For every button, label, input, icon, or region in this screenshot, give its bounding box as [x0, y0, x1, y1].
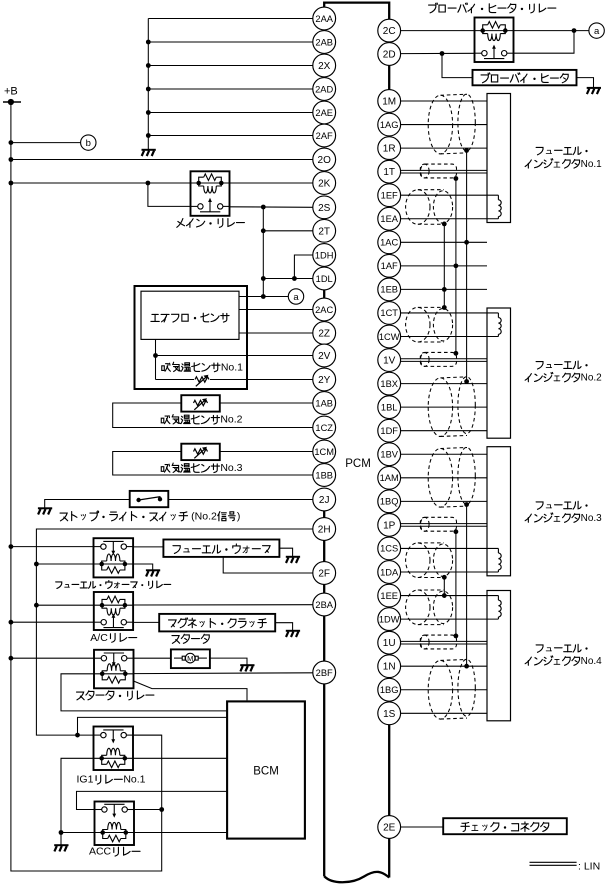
- wire to connector b: [11, 142, 81, 144]
- label PCM: [345, 458, 371, 470]
- wire junction riser x263: [261, 207, 266, 299]
- wire IG1 switch stub to BCM: [78, 717, 228, 735]
- shield for 1V LIN line: [420, 352, 456, 366]
- label ブローバイ・ヒータ: [481, 73, 568, 83]
- svg-text:1CS: 1CS: [380, 544, 398, 554]
- node pin 2AB: [313, 31, 336, 54]
- connector a (right): [589, 23, 604, 38]
- wire A/C relay switch to magnet clutch: [133, 621, 159, 623]
- ground fuel warmer: [286, 557, 300, 563]
- wire link 2H-2F: [323, 529, 325, 573]
- svg-text:No.1: No.1: [221, 361, 243, 373]
- svg-text:1AM: 1AM: [380, 473, 399, 483]
- thermistor 吸気温センサNo.1: [195, 375, 209, 387]
- wire to connector a (airflow sensor): [239, 296, 288, 298]
- svg-text:1EF: 1EF: [381, 190, 398, 200]
- wire main relay switch left leg: [148, 183, 191, 206]
- wire pin 1BQ: [401, 500, 487, 502]
- wire pin 1V LIN: [401, 359, 487, 362]
- injector No.2 connector and coil: [401, 308, 511, 438]
- wire shield drain chain D (No.3 sensor shield to 1N): [464, 502, 469, 668]
- svg-text:1N: 1N: [383, 662, 396, 673]
- node pin 2D: [378, 43, 401, 66]
- relay ACC (ACCリレー): [95, 802, 135, 846]
- wire pin 2F from fuel warmer: [223, 557, 313, 573]
- svg-text:1DW: 1DW: [379, 614, 400, 624]
- svg-text:IG1: IG1: [76, 774, 93, 786]
- svg-text:b: b: [86, 138, 91, 149]
- svg-text:2H: 2H: [318, 525, 331, 536]
- thermistor box 吸気温センサNo.2: [181, 395, 220, 411]
- svg-text:2T: 2T: [318, 226, 330, 237]
- wire pin 2D to blow-by relay switch: [401, 51, 475, 56]
- node pin 2T: [313, 219, 336, 242]
- node pin 1EB: [378, 278, 401, 301]
- node pin 1T: [378, 160, 401, 183]
- label フューエル・インジェクタNo.4: [525, 644, 602, 667]
- ground stop lamp switch: [38, 508, 52, 514]
- node pin 1N: [378, 655, 401, 678]
- node pin 1EF: [378, 184, 401, 207]
- wire shield drain chain F (No.3 coil shield to 1EE): [442, 575, 447, 598]
- switch stop lamp (ストップ・ライト・スイッチ): [130, 491, 169, 507]
- svg-text:2AF: 2AF: [316, 131, 333, 141]
- svg-text:(No.2: (No.2: [188, 510, 217, 522]
- wire pin 1BG: [401, 689, 487, 691]
- injector No.4 connector and coil: [401, 591, 511, 721]
- wire pin 1AB / loop to 1CZ: [113, 403, 313, 428]
- wire airflow internal riser: [153, 339, 158, 379]
- svg-text:2E: 2E: [383, 823, 396, 834]
- label チェック・コネクタ: [461, 822, 549, 832]
- svg-text:1CZ: 1CZ: [315, 423, 333, 433]
- shield for 1N/1BG/1S (injector No.4 sensor lines): [428, 659, 475, 719]
- wire starter relay switch to starter motor: [134, 657, 171, 659]
- node pin 2AD: [313, 78, 336, 101]
- svg-text:2F: 2F: [318, 569, 330, 580]
- svg-text:No.3: No.3: [220, 462, 242, 474]
- svg-text:1BV: 1BV: [380, 450, 398, 460]
- label ブローバイ・ヒータ・リレー: [429, 3, 556, 13]
- wire A/C relay switch left to +B: [11, 621, 94, 623]
- relay IG1 (IG1リレーNo.1): [94, 727, 134, 771]
- node pin 2C: [378, 19, 401, 42]
- node pin 1BL: [378, 396, 401, 419]
- wire IG1 coil right to BCM: [133, 757, 227, 759]
- relay starter (スタータ・リレー): [94, 650, 134, 689]
- node pin 1R: [378, 137, 401, 160]
- svg-text:No.2: No.2: [220, 414, 242, 426]
- wire link 2BA-2BF: [323, 605, 325, 673]
- node pin 1BX: [378, 372, 401, 395]
- box BCM: [227, 701, 305, 838]
- wire pin 1M: [401, 100, 487, 102]
- node pin 1EE: [378, 584, 401, 607]
- wire pin 2AE: [148, 112, 312, 114]
- node pin 1CS: [378, 537, 401, 560]
- svg-text:1DH: 1DH: [315, 250, 334, 260]
- wire starter relay switch to BCM top: [134, 681, 248, 700]
- wire magnet clutch to ground: [275, 623, 292, 631]
- node pin 1P: [378, 514, 401, 537]
- wire pin 1S: [401, 712, 487, 714]
- wire pin 2AA: [148, 18, 312, 20]
- wire pin 1DF: [401, 430, 487, 432]
- connector b: [81, 135, 96, 150]
- node pin 2X: [313, 54, 336, 77]
- svg-text:2C: 2C: [383, 26, 396, 37]
- node pin 1CW: [378, 325, 401, 348]
- node pin 1AM: [378, 466, 401, 489]
- ground magnet clutch: [286, 631, 300, 637]
- ground blow-by heater: [587, 88, 601, 94]
- wire pin 1P LIN: [401, 524, 487, 527]
- wire pin 1BX: [401, 383, 487, 385]
- label フューエル・インジェクタNo.3: [525, 501, 602, 524]
- wire pin 2Z: [239, 332, 313, 334]
- wire pin 2K main relay coil: [11, 181, 313, 186]
- node pin 1DF: [378, 419, 401, 442]
- label 吸気温センサNo.2: [161, 414, 242, 426]
- node pin 2V: [313, 344, 336, 367]
- svg-text:2BA: 2BA: [315, 600, 333, 610]
- node pin 1CM: [313, 440, 336, 463]
- svg-text:1P: 1P: [383, 520, 396, 531]
- label フューエル・ウォーマ: [173, 544, 270, 553]
- wire blow-by relay switch right leg: [514, 31, 575, 54]
- motor starter (スタータ): [171, 649, 210, 668]
- box airflow sensor unit (エアフロ・センサ outer): [135, 286, 248, 389]
- svg-text:No.3: No.3: [581, 513, 603, 524]
- wire fuel warmer relay switch to heater box: [133, 546, 163, 548]
- label エアフロ・センサ: [151, 313, 229, 322]
- wire pin 2H descending feed: [34, 529, 313, 737]
- wire PCM top bus 2AA to 2C: [324, 3, 389, 31]
- svg-text:1R: 1R: [383, 144, 396, 155]
- label フューエル・インジェクタNo.2: [525, 361, 602, 384]
- wire shield drain chain B (1T shield to 1AF to 1V shield): [454, 176, 459, 356]
- label メイン・リレー: [177, 219, 245, 228]
- node pin 1M: [378, 90, 401, 113]
- box チェック・コネクタ: [443, 818, 567, 834]
- node pin 2J: [313, 488, 336, 511]
- wire shield drain chain A (No.1 sensor shield to 1AC to No.2 shield): [464, 148, 469, 384]
- ground for top-left bus: [142, 150, 156, 156]
- svg-text:): ): [237, 510, 241, 522]
- svg-text:2Z: 2Z: [318, 329, 330, 340]
- svg-text:No.1: No.1: [581, 159, 603, 170]
- node pin 1AF: [378, 254, 401, 277]
- shield for 1T LIN line: [420, 164, 456, 178]
- wire pin 2O: [11, 159, 313, 161]
- svg-text:2AA: 2AA: [315, 14, 333, 24]
- node pin 2AA: [313, 7, 336, 30]
- wire pin 1AC: [401, 241, 487, 243]
- svg-text:1BL: 1BL: [381, 402, 398, 412]
- svg-text:ACC: ACC: [89, 846, 112, 858]
- wire pin 1AF: [401, 265, 487, 267]
- node pin 2H: [313, 518, 336, 541]
- node pin 1BV: [378, 443, 401, 466]
- wire PCM left edge below 2BF with break: [324, 673, 389, 883]
- injector No.3 connector and coil: [401, 447, 511, 576]
- wire pin 2BF from starter relay coil: [134, 672, 313, 675]
- node pin 1CZ: [313, 416, 336, 439]
- wire pin 2AB: [148, 41, 312, 43]
- label IG1リレーNo.1: [76, 774, 145, 786]
- label 吸気温センサNo.1: [162, 361, 243, 373]
- node pin 1EA: [378, 207, 401, 230]
- svg-text:1CW: 1CW: [379, 332, 400, 342]
- svg-text:1DL: 1DL: [316, 274, 333, 284]
- wire pin 2BA from A/C relay coil: [36, 604, 312, 607]
- node pin 2AF: [313, 124, 336, 147]
- node pin 2BF: [313, 661, 336, 684]
- wire IG1 switch right to bottom loop: [133, 734, 162, 736]
- svg-text:1DF: 1DF: [380, 426, 398, 436]
- svg-text:1AB: 1AB: [315, 398, 333, 408]
- relay A/C (A/Cリレー): [94, 592, 133, 630]
- node pin 1DW: [378, 608, 401, 631]
- svg-text:1AC: 1AC: [380, 238, 398, 248]
- svg-text:2K: 2K: [318, 179, 331, 190]
- wire pin 2C blow-by relay coil: [401, 28, 589, 33]
- node pin 2Y: [313, 368, 336, 391]
- node pin 1BG: [378, 678, 401, 701]
- svg-text:1EE: 1EE: [380, 591, 398, 601]
- wire link 2J-2H: [323, 500, 325, 530]
- svg-text:2O: 2O: [318, 155, 332, 166]
- svg-text:: LIN: : LIN: [578, 861, 600, 873]
- wire blow-by heater feed: [442, 54, 473, 78]
- label ストップ・ライト・スイッチ (No.2信号): [60, 510, 240, 522]
- wire shield drain chain C (No.1 coil shield to 1EB to No.2 coil shield): [442, 222, 447, 310]
- node pin 1DH: [313, 244, 336, 267]
- wire +B feed line: [9, 102, 165, 871]
- svg-text:1S: 1S: [383, 709, 396, 720]
- node pin 1V: [378, 349, 401, 372]
- ground fuel warmer relay coil: [146, 570, 160, 576]
- wire link 2D-1M: [388, 54, 390, 101]
- shield for 1EE/1DW (injector No.4 coil lines): [406, 590, 453, 625]
- wire pin 2J stop lamp switch: [45, 500, 313, 509]
- node pin 2O: [313, 148, 336, 171]
- svg-text:1AF: 1AF: [381, 261, 398, 271]
- svg-text:2Y: 2Y: [318, 375, 331, 386]
- node pin 1AB: [313, 392, 336, 415]
- node pin 2E: [378, 816, 401, 839]
- connector a (left): [288, 289, 303, 304]
- svg-text:2D: 2D: [383, 50, 396, 61]
- wire pin 2AD: [148, 88, 312, 90]
- svg-text:1AG: 1AG: [380, 120, 399, 130]
- svg-text:2J: 2J: [319, 495, 330, 506]
- wire fuel warmer relay coil right to ground: [133, 564, 153, 570]
- wire pin 1CM / loop to 1BB: [113, 452, 313, 476]
- shield for 1EF/1EA (injector No.1 coil lines): [406, 190, 453, 225]
- wire pin 1AM: [401, 477, 487, 479]
- wire fuel warmer to ground: [279, 548, 292, 557]
- wire pin 1AG: [401, 124, 487, 126]
- wire pin 2X: [148, 65, 312, 67]
- node pin 2F: [313, 562, 336, 585]
- wire fuel warmer relay switch left to +B: [11, 546, 94, 548]
- svg-text:1CT: 1CT: [380, 308, 398, 318]
- label A/Cリレー: [90, 632, 136, 644]
- svg-text:1V: 1V: [383, 356, 396, 367]
- wire shield drain chain E (1P shield to 1U shield): [454, 529, 459, 638]
- label ACCリレー: [89, 846, 140, 858]
- wire IG1 coil left to ground riser: [59, 758, 94, 845]
- wire pin 1DL: [263, 278, 313, 280]
- svg-text:No.1: No.1: [123, 774, 145, 786]
- wire pin 1BL: [401, 406, 487, 408]
- svg-text:1DA: 1DA: [380, 567, 399, 577]
- node pin 1CT: [378, 302, 401, 325]
- svg-text:1CM: 1CM: [314, 447, 334, 457]
- wire pin 2V: [156, 355, 313, 357]
- thermistor box 吸気温センサNo.3: [181, 444, 220, 460]
- svg-text:1EB: 1EB: [380, 285, 398, 295]
- node pin 1AG: [378, 113, 401, 136]
- svg-text:1T: 1T: [383, 167, 395, 178]
- wire pin 2S from main relay switch: [230, 205, 313, 210]
- node pin 1BQ: [378, 490, 401, 513]
- box エアフロ・センサ inner: [141, 291, 239, 339]
- wire ACC switch right to +B loop: [134, 809, 162, 811]
- wire pin 2E to check connector: [401, 826, 444, 828]
- node pin 2AE: [313, 101, 336, 124]
- label マグネット・クラッチ: [169, 618, 267, 628]
- wire ACC switch left to BCM: [77, 791, 228, 809]
- svg-text:2X: 2X: [318, 61, 331, 72]
- wire pin 1U LIN: [401, 641, 487, 644]
- svg-text:1U: 1U: [383, 638, 396, 649]
- svg-text:a: a: [594, 26, 600, 37]
- node pin 2AC: [313, 298, 336, 321]
- node pin 2K: [313, 172, 336, 195]
- wire link 1S-2E and PCM right edge with break: [388, 713, 390, 877]
- wire pin 1T LIN: [401, 170, 487, 173]
- shield for 1U LIN line: [420, 635, 456, 649]
- node pin 1DA: [378, 561, 401, 584]
- power symbol +B: [3, 85, 21, 105]
- shield for 1CS/1DA (injector No.3 coil lines): [406, 543, 453, 578]
- svg-text:1BB: 1BB: [315, 470, 333, 480]
- wire fuel warmer relay coil left: [36, 563, 93, 565]
- svg-text:a: a: [293, 292, 299, 303]
- wire blow-by heater to ground: [577, 78, 594, 88]
- svg-text:2AC: 2AC: [315, 305, 333, 315]
- svg-text:No.2: No.2: [581, 373, 603, 384]
- label 吸気温センサNo.3: [161, 462, 242, 474]
- wire pin 2Y with thermistor: [156, 379, 313, 381]
- node pin 1DL: [313, 267, 336, 290]
- label フューエル・ウォーマ・リレー: [56, 581, 171, 589]
- svg-text:M: M: [187, 654, 193, 663]
- ground starter motor: [240, 665, 254, 671]
- wire ACC coil right to BCM: [134, 832, 227, 834]
- wire starter relay coil left to BCM: [61, 674, 227, 711]
- svg-text:PCM: PCM: [345, 458, 371, 470]
- shield for 1CT/1CW (injector No.2 coil lines): [406, 307, 453, 342]
- box フューエル・ウォーマ: [163, 540, 279, 557]
- svg-text:2AD: 2AD: [315, 84, 333, 94]
- shield for 1BV/1AM/1BQ (injector No.3 sensor lines): [428, 447, 475, 507]
- wire pin 1DH: [292, 255, 313, 281]
- svg-text:2S: 2S: [318, 203, 331, 214]
- wire pin 1N: [401, 665, 487, 667]
- shield for 1BX/1BL/1DF (injector No.2 sensor lines): [428, 377, 475, 437]
- node pin 1U: [378, 631, 401, 654]
- node pin 2BA: [313, 593, 336, 616]
- relay fuel warmer (フューエル・ウォーマ・リレー): [94, 538, 134, 577]
- svg-text:1BQ: 1BQ: [380, 497, 399, 507]
- relay main (メイン・リレー): [191, 171, 230, 216]
- wire pin 1R: [401, 147, 487, 149]
- box マグネット・クラッチ: [159, 614, 275, 632]
- svg-text:2AE: 2AE: [315, 108, 333, 118]
- ground IG1/ACC coils: [54, 845, 68, 851]
- svg-text:2BF: 2BF: [316, 668, 333, 678]
- shield for 1P LIN line: [420, 517, 456, 531]
- node pin 2Z: [313, 322, 336, 345]
- wire pin 1EB: [401, 288, 487, 290]
- svg-text:A/C: A/C: [90, 632, 108, 644]
- node pin 1S: [378, 702, 401, 725]
- svg-text:BCM: BCM: [253, 766, 279, 778]
- node pin 1AC: [378, 231, 401, 254]
- svg-text:1BG: 1BG: [380, 685, 399, 695]
- shield for 1M/1AG/1R (injector No.1 sensor lines): [428, 94, 475, 154]
- node pin 1BB: [313, 464, 336, 487]
- svg-text:No.4: No.4: [581, 656, 603, 667]
- injector No.1 connector and coil: [401, 94, 511, 223]
- box ブローバイ・ヒータ: [473, 70, 577, 85]
- svg-text:1BX: 1BX: [380, 379, 398, 389]
- wire pin 2T: [263, 230, 313, 232]
- wire link 1DL-2AC: [323, 279, 325, 310]
- node pin 2S: [313, 196, 336, 219]
- label フューエル・インジェクタNo.1: [525, 147, 602, 170]
- legend LIN double line: [530, 861, 601, 873]
- label スタータ・リレー: [77, 691, 154, 700]
- wire link 2F-2BA: [323, 573, 325, 605]
- wire ACC coil left to ground riser: [61, 832, 95, 834]
- wire pin 2AC: [239, 309, 313, 311]
- svg-text:1M: 1M: [382, 97, 396, 108]
- svg-text:+B: +B: [4, 85, 18, 97]
- wire pin 2AF: [148, 135, 312, 137]
- relay blow-by heater (ブローバイ・ヒータ・リレー): [475, 18, 514, 63]
- wire pin 1BV: [401, 453, 487, 455]
- wire starter motor to ground: [210, 658, 247, 665]
- svg-text:2AB: 2AB: [315, 37, 333, 47]
- label スタータ: [172, 634, 209, 643]
- svg-text:1EA: 1EA: [380, 214, 398, 224]
- wire starter relay switch left to +B: [11, 657, 94, 659]
- svg-text:2V: 2V: [318, 351, 331, 362]
- wire top-left bus feeding 2AA-2AF: [146, 19, 151, 150]
